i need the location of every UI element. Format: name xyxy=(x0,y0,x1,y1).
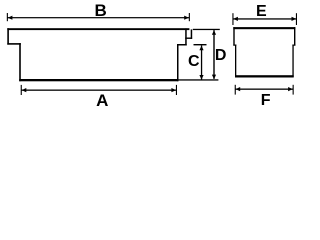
dimension B right arrow xyxy=(184,16,189,20)
dimension B left arrow xyxy=(8,16,13,20)
dimension D top extension line xyxy=(193,29,220,30)
dimension F left tick xyxy=(235,85,236,95)
lid interior vertical edge xyxy=(185,28,187,45)
dimension C bottom arrow xyxy=(199,75,203,80)
dimension A right arrow xyxy=(171,88,176,92)
dimensioned drawing of truck toolbox: front view (A,B,C,D) and side view (E,F) xyxy=(0,0,302,109)
dimension B left tick xyxy=(7,13,8,21)
lid top edge xyxy=(7,28,189,30)
svg-text:E: E xyxy=(256,3,267,20)
svg-text:C: C xyxy=(188,53,200,70)
dimension B line xyxy=(7,17,189,18)
right ear bottom edge xyxy=(185,38,192,39)
dimension A right tick xyxy=(176,85,177,95)
lid top edge xyxy=(233,27,295,29)
dimension D line xyxy=(213,30,214,79)
dimension C top arrow xyxy=(199,46,203,51)
left ear bottom edge xyxy=(7,43,20,45)
dimension E line xyxy=(233,18,297,19)
body bottom edge xyxy=(19,79,178,81)
body left edge xyxy=(235,45,236,78)
svg-text:D: D xyxy=(215,47,227,64)
dimension D bottom arrow xyxy=(212,75,216,80)
dimension E left tick xyxy=(232,13,233,25)
dimension C extension line xyxy=(194,44,207,45)
bottom extension line (shared by C and D) xyxy=(178,79,218,80)
svg-text:F: F xyxy=(261,92,271,109)
svg-text:A: A xyxy=(96,91,108,109)
dimension E right arrow xyxy=(292,17,297,21)
dimension F right arrow xyxy=(288,87,293,91)
dimension E left arrow xyxy=(233,17,238,21)
dimension C line xyxy=(201,45,202,79)
body right edge xyxy=(177,44,179,81)
lid right edge xyxy=(191,29,193,39)
right step edge xyxy=(292,45,295,46)
lid left edge xyxy=(7,28,9,44)
dimension E right tick xyxy=(296,13,297,25)
dimension F left arrow xyxy=(236,87,241,91)
dimension B right tick xyxy=(189,13,190,21)
dimension A left arrow xyxy=(22,88,27,92)
dimension A left tick xyxy=(21,85,22,95)
dimension D top arrow xyxy=(212,30,216,35)
dimension F line xyxy=(235,89,293,90)
body left edge xyxy=(19,43,21,81)
body bottom edge xyxy=(235,75,294,77)
left step edge xyxy=(233,45,236,46)
dimension F right tick xyxy=(293,85,294,95)
lid right edge xyxy=(294,27,295,45)
svg-text:B: B xyxy=(95,1,107,20)
lid left edge xyxy=(233,27,234,45)
right step edge xyxy=(177,44,187,46)
dimension A line xyxy=(21,90,176,91)
body right edge xyxy=(292,45,293,78)
